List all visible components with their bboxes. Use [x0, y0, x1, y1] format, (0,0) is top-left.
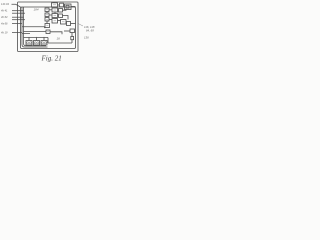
vertical link x52top [53, 1, 55, 4]
leader to 4b64 [12, 16, 24, 18]
leader wire y13 [12, 12, 25, 14]
wire B1 left [64, 30, 70, 32]
gate G3 [45, 8, 49, 12]
gate G1 [52, 3, 58, 7]
key K1 [26, 41, 32, 46]
svg-text:16: 16 [57, 37, 61, 41]
gate G6 [45, 13, 49, 17]
wire y27.7 stub [44, 27, 46, 29]
leader to 4a66 [12, 23, 22, 25]
label 148/64 top-left [1, 2, 95, 41]
leader to 116,118 [78, 24, 83, 27]
K1 contact a [27, 42, 29, 44]
gate cluster top [44, 2, 76, 43]
wire G10 right [58, 20, 62, 22]
stub S3 [43, 38, 45, 41]
bus wire B with rounded bend [24, 7, 47, 46]
K1 contact b [29, 42, 31, 44]
svg-text:64, 68: 64, 68 [86, 29, 94, 33]
svg-text:184: 184 [34, 8, 39, 12]
gate G4 [52, 8, 58, 12]
wire B1 down [71, 33, 73, 37]
vertical link x47 [46, 12, 48, 14]
wire G12 to right edge [71, 23, 76, 25]
wire G2-U2 [64, 4, 65, 6]
gate G11 [61, 20, 67, 25]
contact row feed wire [24, 37, 49, 39]
svg-text:Fig. 21: Fig. 21 [41, 55, 62, 63]
key K2 [34, 41, 40, 46]
svg-text:136: 136 [84, 36, 89, 40]
wire osc right [50, 32, 62, 35]
wire y19.7 [12, 19, 25, 21]
junction J3 [43, 37, 44, 38]
wire y31 [24, 31, 47, 33]
leader to 4b41 / wire into bus [12, 10, 24, 12]
K3 contact a [42, 42, 44, 44]
gate G2 [60, 3, 64, 7]
buffer U2 [65, 4, 72, 10]
wire G8 right [63, 16, 69, 20]
contact row [26, 38, 47, 46]
junction J2 [36, 37, 37, 38]
vertical link x55 [54, 12, 56, 14]
inner circuit block 184 [21, 7, 76, 49]
gate G10 [52, 19, 58, 24]
K3 contact b [44, 42, 46, 44]
junction J1 [28, 37, 29, 38]
wire G1-G2 [58, 4, 60, 6]
wire G5 right [63, 9, 67, 12]
gate G5 [59, 9, 63, 13]
leader to 4b19 [12, 32, 22, 34]
stub S2 [36, 38, 38, 41]
osc box [46, 30, 50, 34]
svg-text:14b 04: 14b 04 [1, 2, 9, 6]
outer enclosure box [18, 2, 79, 52]
K2 contact b [37, 42, 39, 44]
bottom return wire [48, 42, 72, 44]
gate inner marks [46, 5, 65, 32]
svg-text:4a 66: 4a 66 [1, 22, 8, 26]
stub S1 [28, 38, 30, 41]
U2 inner cell [66, 5, 69, 8]
wire D1 down [71, 40, 73, 43]
key K3 [41, 41, 47, 46]
wire G13 up [47, 21, 49, 24]
wire G9-G10 [49, 19, 52, 21]
svg-text:4b 19: 4b 19 [1, 31, 8, 35]
gate G8 [59, 14, 63, 18]
gate G9 [45, 18, 49, 22]
wire G3-G4 [49, 9, 52, 11]
wire U2 to right edge [71, 6, 76, 8]
gate G12 [67, 22, 71, 26]
wire x48 vert [47, 38, 49, 44]
bus wire A with rounded bend [22, 7, 48, 47]
K2 contact a [34, 42, 36, 44]
latch box B1 [70, 29, 75, 33]
svg-text:4b 41: 4b 41 [1, 9, 8, 13]
svg-text:4b 64: 4b 64 [1, 15, 8, 19]
wire y26 to gate cluster [22, 26, 45, 28]
diode D1 [71, 37, 74, 40]
wire y33 [22, 33, 30, 35]
leader to 148 [12, 4, 21, 7]
gate G7 [52, 14, 58, 18]
gate G13 [45, 24, 50, 28]
wire G6-G7 [49, 14, 52, 16]
